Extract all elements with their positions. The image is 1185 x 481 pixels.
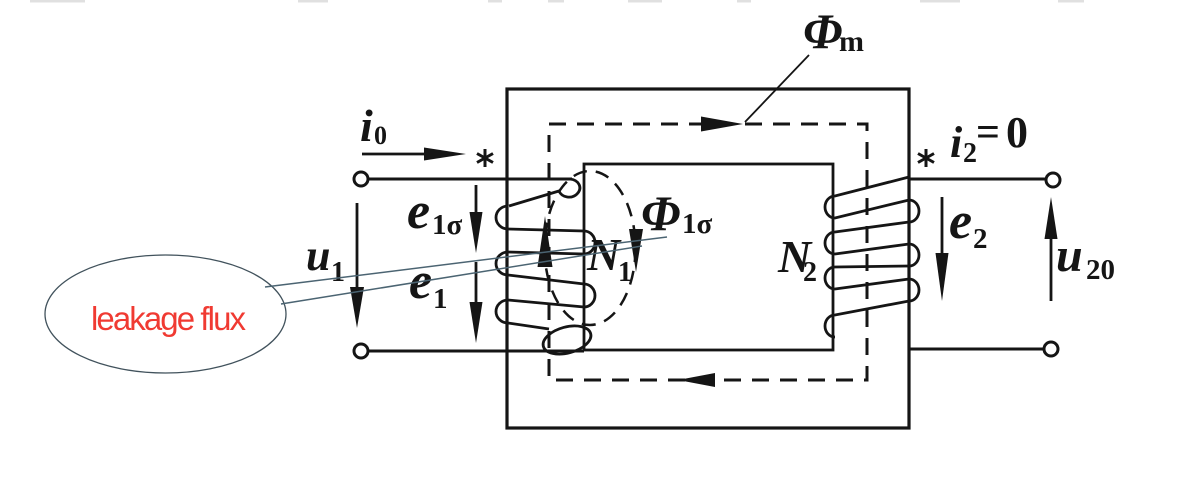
e2 arrow (down) (941, 197, 944, 256)
svg-text:=: = (976, 110, 1000, 156)
transformer core outer rectangle (507, 89, 909, 428)
terminal bottom-right (1044, 342, 1058, 356)
svg-text:1: 1 (618, 257, 632, 288)
svg-text:i: i (950, 118, 963, 167)
leakage flux up arrow (left side of ellipse) (538, 216, 553, 267)
callout leader line lower (281, 246, 642, 304)
svg-text:u: u (306, 231, 330, 280)
svg-text:2: 2 (973, 223, 988, 255)
u20 arrow (up) (1050, 238, 1053, 301)
svg-text:Φ: Φ (641, 185, 680, 241)
leakage flux dashed ellipse around primary winding (545, 171, 636, 325)
i0 arrow (362, 153, 428, 156)
u1 arrow (down) (356, 203, 359, 292)
svg-text:0: 0 (1006, 108, 1028, 157)
svg-text:e: e (407, 183, 430, 240)
svg-text:1: 1 (433, 283, 448, 315)
main flux dashed path (rectangle) (549, 124, 867, 380)
leakage flux down arrow (right side, Phi_1sigma) (629, 229, 643, 272)
svg-text:i: i (360, 100, 373, 151)
secondary top wire (909, 178, 1046, 181)
svg-text:leakage flux: leakage flux (91, 300, 247, 337)
svg-text:1σ: 1σ (682, 208, 713, 240)
terminal top-right (1046, 173, 1060, 187)
main flux arrow top (points right) (701, 117, 743, 132)
terminal top-left (354, 172, 368, 186)
svg-text:m: m (839, 25, 864, 58)
svg-text:2: 2 (803, 257, 817, 288)
main flux arrow bottom (points left) (678, 373, 715, 387)
svg-text:0: 0 (374, 121, 387, 150)
callout ellipse "leakage flux" (45, 255, 286, 373)
e1 arrow (down) (475, 262, 478, 303)
svg-text:1σ: 1σ (432, 209, 463, 241)
primary winding coil (496, 206, 595, 329)
leader line from Phi_m to flux arrow (745, 55, 809, 122)
svg-text:u: u (1056, 229, 1083, 282)
primary bottom wire (368, 350, 584, 353)
svg-text:e: e (949, 193, 972, 250)
svg-text:20: 20 (1086, 254, 1115, 286)
svg-text:Φ: Φ (803, 3, 842, 59)
svg-text:1: 1 (331, 257, 345, 288)
callout leader line upper (265, 237, 667, 287)
secondary bottom wire (909, 348, 1044, 351)
polarity asterisk left (477, 149, 493, 167)
faint cropped text remnants top edge (30, 0, 1084, 3)
primary winding bottom loop (540, 321, 594, 359)
svg-text:2: 2 (963, 138, 977, 169)
terminal bottom-left (354, 344, 368, 358)
primary winding top wire (368, 178, 572, 181)
e1sigma arrow (down) (475, 185, 478, 218)
secondary winding coil (825, 177, 919, 337)
polarity asterisk right (918, 149, 934, 167)
primary winding entry hook (509, 179, 580, 206)
transformer core window (inner rectangle) (584, 164, 833, 350)
